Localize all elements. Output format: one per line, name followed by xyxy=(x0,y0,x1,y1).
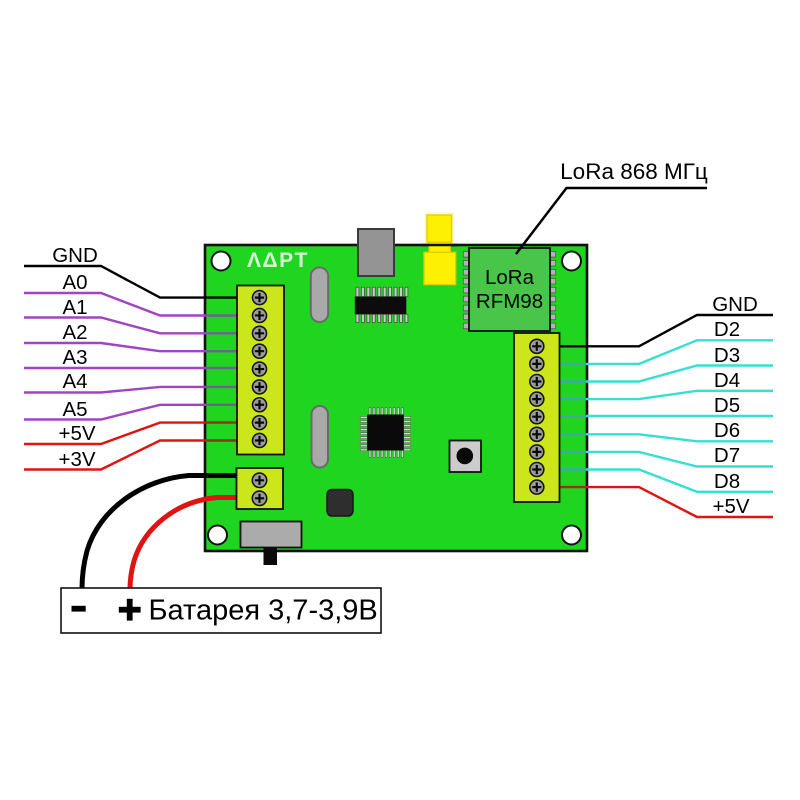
svg-text:GND: GND xyxy=(52,244,98,267)
svg-text:GND: GND xyxy=(712,293,758,316)
wire A3 (left) xyxy=(24,367,242,369)
mounting hole 1 xyxy=(212,252,231,271)
wire A4 (left) xyxy=(24,387,242,393)
svg-text:A5: A5 xyxy=(62,398,87,421)
wire D6 (right) xyxy=(537,434,773,441)
crystal Y2 xyxy=(312,406,329,468)
IC U3 (DIP-16) xyxy=(355,287,408,322)
svg-text:A2: A2 xyxy=(62,321,87,344)
svg-text:Батарея 3,7-3,9В: Батарея 3,7-3,9В xyxy=(149,595,378,627)
wire +3V (left) xyxy=(24,441,242,470)
wire D4 (right) xyxy=(537,391,773,399)
wire A2 (left) xyxy=(24,343,242,351)
SMA antenna connector xyxy=(423,213,457,285)
svg-text:A0: A0 xyxy=(62,271,87,294)
svg-text:D5: D5 xyxy=(714,394,740,417)
wire D8 (right) xyxy=(537,470,773,492)
svg-text:D6: D6 xyxy=(714,419,740,442)
power switch SW2 xyxy=(241,522,302,566)
terminal block J3 (battery) xyxy=(237,468,284,509)
component BZ1 (black square) xyxy=(327,490,353,517)
wire A0 (left) xyxy=(24,293,242,316)
wire D5 (right) xyxy=(537,415,773,418)
push button SW1 xyxy=(450,441,482,473)
wire GND (left) xyxy=(24,266,242,298)
LoRa leader line xyxy=(516,188,707,254)
mounting hole 2 xyxy=(562,252,581,271)
mounting hole 4 xyxy=(562,526,581,545)
terminal block J2 (digital) xyxy=(514,333,560,502)
svg-text:LoRa: LoRa xyxy=(485,266,535,289)
svg-text:A1: A1 xyxy=(62,296,87,319)
LoRa module U2 (RFM98) xyxy=(463,248,555,331)
PCB board xyxy=(205,245,587,551)
wire GND (right) xyxy=(537,315,773,346)
svg-text:D4: D4 xyxy=(714,369,740,392)
svg-text:+5V: +5V xyxy=(712,495,749,518)
svg-text:D3: D3 xyxy=(714,344,740,367)
wire A5 (left) xyxy=(24,405,242,420)
battery negative wire (black) xyxy=(82,476,237,590)
wire A1 (left) xyxy=(24,318,242,334)
wire D2 (right) xyxy=(537,340,773,364)
wire +5V (left) xyxy=(24,423,242,444)
svg-text:LoRa 868 МГц: LoRa 868 МГц xyxy=(560,159,708,184)
svg-text:RFM98: RFM98 xyxy=(476,290,543,313)
terminal block J1 (analog) xyxy=(237,286,284,455)
svg-text:+3V: +3V xyxy=(58,448,95,471)
wire D3 (right) xyxy=(537,366,773,382)
svg-text:A4: A4 xyxy=(62,370,87,393)
svg-text:ΛΔΡΤ: ΛΔΡΤ xyxy=(247,249,309,272)
mounting hole 3 xyxy=(208,526,227,545)
svg-text:D8: D8 xyxy=(714,470,740,493)
svg-text:A3: A3 xyxy=(62,346,87,369)
crystal Y1 xyxy=(311,267,328,322)
battery positive wire (red) xyxy=(130,498,237,590)
svg-text:D7: D7 xyxy=(714,444,740,467)
USB connector X1 xyxy=(358,229,394,276)
svg-text:D2: D2 xyxy=(714,318,740,341)
svg-text:+5V: +5V xyxy=(58,422,95,445)
wire D7 (right) xyxy=(537,452,773,467)
battery label box xyxy=(61,588,381,633)
wire +5V (right) xyxy=(537,487,773,517)
MCU U1 (QFP-32) xyxy=(360,408,411,458)
